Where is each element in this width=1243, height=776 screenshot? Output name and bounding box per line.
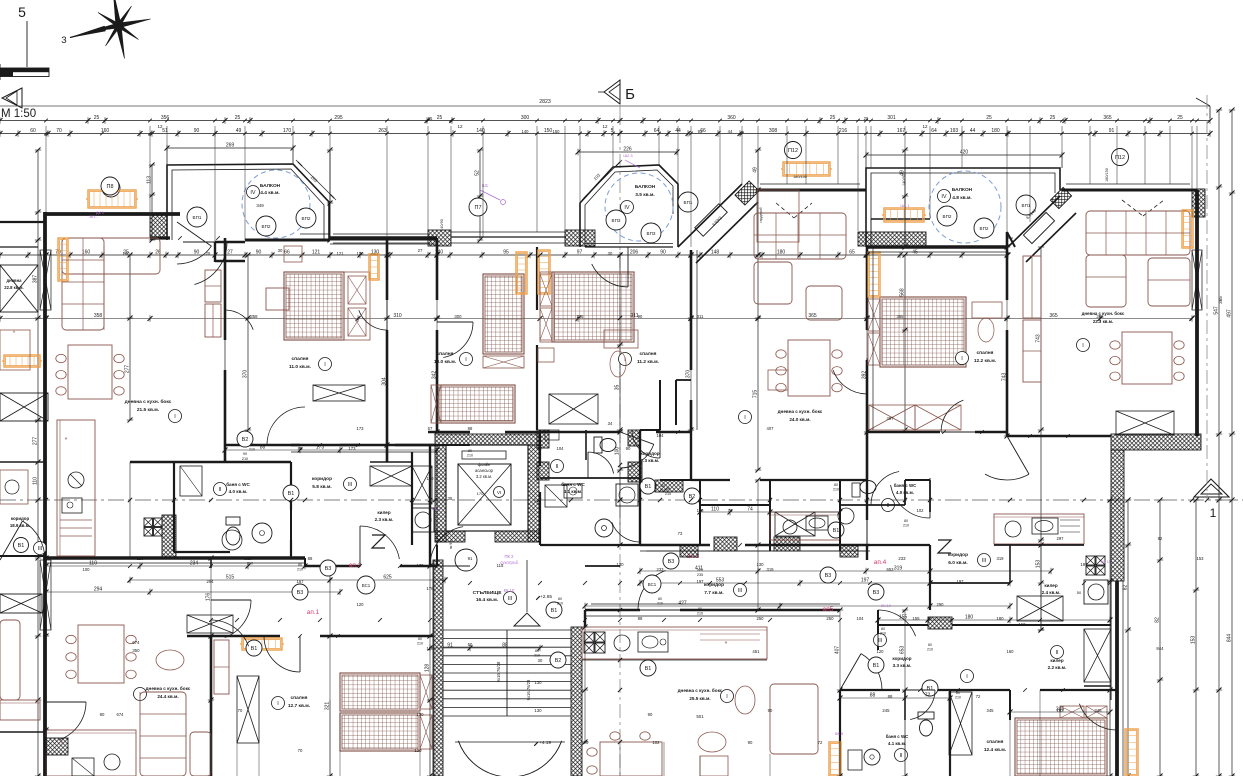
svg-text:В3: В3 (668, 559, 675, 565)
svg-text:коридор: коридор (948, 553, 968, 558)
wall under balcony1 (245, 239, 330, 242)
svg-text:350: 350 (132, 648, 140, 653)
svg-text:210: 210 (534, 654, 540, 658)
svg-text:III: III (348, 482, 353, 488)
svg-text:57: 57 (428, 426, 433, 431)
wall y=558 long (ap1 south) (46, 556, 305, 560)
svg-text:М 1:50: М 1:50 (1, 108, 36, 120)
svg-text:спалня: спалня (292, 357, 309, 362)
svg-text:25: 25 (830, 115, 836, 121)
right dimension chains (1218, 110, 1220, 776)
door arc D balcony (592, 264, 628, 287)
svg-text:З: З (61, 35, 66, 45)
svg-text:килер: килер (1044, 583, 1058, 588)
svg-text:300: 300 (521, 115, 530, 121)
wall x=1007 F/G divide (1006, 232, 1009, 300)
radiator P12 left (783, 162, 830, 176)
svg-text:120: 120 (697, 568, 703, 572)
svg-text:210: 210 (417, 642, 423, 646)
svg-text:90: 90 (748, 740, 753, 745)
svg-text:ВП1: ВП1 (1022, 203, 1031, 208)
window sills double lines top walls (45, 318, 47, 420)
wall x=385-390 bedroomB right (386, 238, 389, 300)
svg-text:+4.19: +4.19 (539, 740, 551, 746)
bed single C (483, 274, 524, 354)
svg-text:365: 365 (1103, 115, 1112, 121)
svg-text:49: 49 (236, 128, 242, 134)
svg-text:153: 153 (1036, 560, 1042, 569)
svg-text:В1: В1 (251, 646, 258, 652)
table 25.5 bottom (600, 742, 662, 776)
svg-text:6.0 кв.м.: 6.0 кв.м. (948, 560, 968, 566)
svg-text:319: 319 (997, 556, 1005, 561)
svg-text:ВП2: ВП2 (262, 224, 271, 229)
svg-text:210: 210 (665, 492, 671, 496)
svg-text:ДК 1: ДК 1 (96, 211, 104, 215)
svg-text:30: 30 (608, 251, 613, 256)
svg-text:4.0 кв.м.: 4.0 кв.м. (229, 489, 248, 494)
svg-text:30: 30 (278, 248, 283, 253)
hatch pier x565-595 (565, 230, 595, 246)
side table (266, 288, 289, 310)
projection lines top (45, 126, 47, 212)
kitchen column left (57, 420, 95, 556)
balcony 4.4 door wall (215, 241, 245, 243)
svg-text:365: 365 (1096, 314, 1104, 319)
svg-text:В3: В3 (825, 573, 832, 579)
svg-text:625: 625 (383, 575, 392, 581)
svg-text:спалня: спалня (977, 351, 994, 356)
svg-text:70: 70 (298, 748, 303, 753)
hatch pier x428-450 (428, 230, 451, 246)
svg-text:VI: VI (497, 490, 501, 495)
svg-text:844: 844 (1156, 646, 1164, 651)
svg-text:баня с WC: баня с WC (886, 734, 909, 739)
kitchen bottom-left (46, 730, 136, 776)
svg-text:90: 90 (194, 250, 200, 256)
svg-text:80: 80 (250, 443, 254, 447)
svg-text:30: 30 (538, 658, 543, 663)
svg-text:210: 210 (880, 632, 886, 636)
interior dim rows extra (225, 449, 437, 451)
sofa 25.5 (770, 684, 818, 754)
bath left of elevator (412, 466, 432, 504)
svg-text:250: 250 (826, 616, 834, 621)
svg-text:140/90: 140/90 (440, 219, 444, 231)
wall y=690 ap4 south (840, 689, 900, 691)
svg-text:90: 90 (768, 708, 773, 713)
svg-text:370: 370 (686, 370, 692, 379)
dining table left (68, 345, 112, 399)
svg-text:130: 130 (534, 680, 542, 685)
svg-text:319: 319 (767, 567, 775, 572)
svg-text:451: 451 (752, 649, 760, 654)
svg-text:12: 12 (157, 124, 163, 129)
svg-text:233: 233 (898, 556, 906, 561)
svg-text:дневна с кухн. бокс: дневна с кухн. бокс (125, 398, 172, 405)
svg-text:ВП2: ВП2 (980, 226, 989, 231)
svg-text:301: 301 (887, 115, 896, 121)
sofa bottom-left (140, 692, 186, 776)
svg-text:гардероб: гардероб (759, 207, 763, 222)
svg-text:IV: IV (941, 194, 947, 200)
bedroomD bottom wall (540, 431, 620, 433)
svg-text:7.7 кв.м.: 7.7 кв.м. (704, 590, 724, 596)
svg-text:233: 233 (657, 567, 665, 572)
svg-text:100: 100 (615, 447, 621, 456)
svg-text:88: 88 (260, 445, 266, 451)
svg-text:130: 130 (534, 708, 542, 713)
svg-text:ВК 5: ВК 5 (835, 731, 844, 736)
svg-text:Б: Б (625, 86, 635, 103)
sink bath2 (595, 519, 613, 537)
svg-text:90: 90 (626, 446, 631, 451)
svg-text:80: 80 (666, 487, 670, 491)
svg-text:II: II (555, 464, 559, 470)
svg-text:128: 128 (425, 664, 431, 673)
svg-text:34: 34 (608, 421, 613, 426)
svg-text:49: 49 (753, 167, 759, 173)
svg-text:ВП2: ВП2 (943, 214, 952, 219)
svg-text:150: 150 (553, 129, 561, 134)
svg-text:210: 210 (697, 612, 703, 616)
bed C2 bottom (437, 385, 515, 423)
stairwell walls (433, 560, 443, 776)
svg-text:515: 515 (226, 575, 235, 581)
left edge neighbor walls (0, 221, 45, 223)
svg-text:311: 311 (697, 314, 704, 319)
ticks along axis x=620 (618, 131, 622, 135)
left neighbor fragments (0, 265, 38, 312)
svg-text:22.8 кв.м.: 22.8 кв.м. (4, 285, 23, 290)
svg-text:163: 163 (1057, 708, 1065, 713)
sofa cushion lines (1086, 232, 1190, 234)
svg-text:IV: IV (250, 190, 256, 196)
svg-text:В1: В1 (645, 484, 652, 490)
top wall window section x450-565 (451, 236, 566, 238)
svg-text:65: 65 (849, 250, 855, 256)
sofa L top-left (62, 238, 104, 330)
svg-text:173: 173 (357, 426, 365, 431)
svg-text:130: 130 (417, 712, 425, 717)
svg-text:245: 245 (882, 708, 890, 713)
ap4 corridor walls (866, 480, 868, 520)
Z symbol right kiler (938, 540, 951, 553)
wall x=540 C/D divide (536, 247, 538, 310)
svg-text:715: 715 (753, 390, 759, 399)
svg-text:180/150: 180/150 (1105, 168, 1109, 182)
svg-text:ВП3: ВП3 (647, 231, 656, 236)
svg-text:64: 64 (931, 128, 937, 134)
svg-text:2.3 кв.м.: 2.3 кв.м. (641, 458, 660, 463)
radiator bottom right (1125, 729, 1138, 776)
svg-text:356: 356 (161, 115, 170, 121)
svg-text:88: 88 (870, 693, 876, 699)
svg-text:В1: В1 (551, 608, 558, 614)
svg-text:11.0 кв.м.: 11.0 кв.м. (289, 364, 311, 370)
svg-text:П8: П8 (106, 184, 113, 190)
svg-text:Ш2.3: Ш2.3 (623, 153, 633, 158)
svg-text:91: 91 (468, 556, 473, 561)
svg-text:290: 290 (937, 602, 945, 607)
svg-text:80: 80 (881, 627, 885, 631)
radiator G right (1182, 210, 1193, 248)
svg-text:148: 148 (711, 250, 720, 256)
svg-text:130: 130 (357, 251, 365, 256)
radiator bedroomB right (369, 254, 379, 280)
svg-text:91: 91 (1109, 128, 1115, 134)
svg-text:БАЛКОН: БАЛКОН (635, 184, 656, 190)
svg-text:104: 104 (857, 616, 865, 621)
svg-text:1: 1 (1210, 506, 1217, 520)
svg-text:743: 743 (1002, 373, 1008, 382)
bedroomB bottom wall y=445 (225, 444, 300, 446)
radiators bedroomC top (516, 252, 527, 294)
svg-text:210: 210 (247, 562, 253, 566)
svg-text:II: II (899, 753, 903, 759)
svg-text:2823: 2823 (539, 99, 551, 105)
svg-text:72: 72 (818, 740, 823, 745)
svg-text:спалня: спалня (437, 352, 454, 357)
svg-text:+2.85: +2.85 (540, 594, 552, 600)
svg-text:210: 210 (249, 448, 255, 452)
svg-text:4.1 кв.м.: 4.1 кв.м. (564, 489, 583, 494)
svg-text:82: 82 (1158, 536, 1163, 541)
table G (1122, 332, 1172, 384)
svg-text:90: 90 (243, 452, 247, 456)
svg-text:4.4 кв.м.: 4.4 кв.м. (260, 190, 280, 196)
svg-text:210: 210 (297, 568, 303, 572)
wall x=878 (877, 610, 879, 650)
door arc balcony1 (177, 246, 211, 264)
diagonal passage balcony3 (1008, 196, 1060, 247)
svg-text:II: II (218, 487, 222, 493)
svg-text:дневна с кухн. бокс: дневна с кухн. бокс (146, 685, 191, 691)
extra door arcs (194, 242, 227, 285)
svg-text:ВП1: ВП1 (684, 200, 693, 205)
svg-text:73: 73 (678, 531, 683, 536)
svg-text:120: 120 (877, 649, 885, 654)
balcony2 floor wall (585, 246, 673, 248)
svg-text:4.1 кв.м.: 4.1 кв.м. (888, 741, 906, 746)
svg-text:80: 80 (698, 607, 702, 611)
closet 12.7 (237, 676, 259, 743)
svg-text:80: 80 (468, 449, 472, 453)
svg-text:90: 90 (256, 250, 262, 256)
axis marker Б (top) (604, 80, 620, 104)
svg-text:*: * (61, 741, 64, 748)
svg-text:КК 10: КК 10 (504, 588, 515, 593)
svg-text:80: 80 (904, 519, 908, 523)
svg-text:25.5 кв.м.: 25.5 кв.м. (689, 696, 710, 701)
svg-text:300: 300 (454, 314, 462, 319)
svg-text:74: 74 (747, 507, 753, 513)
interior dim chain y=255 (0, 254, 1008, 256)
svg-text:21.5 кв.м.: 21.5 кв.м. (137, 407, 159, 413)
svg-text:52: 52 (475, 170, 481, 176)
svg-text:153: 153 (1197, 556, 1205, 561)
wall y=462 bath1 top (130, 461, 291, 463)
blue circle balcony3 (929, 171, 1001, 243)
svg-text:365: 365 (808, 313, 817, 319)
sofa G corner (1086, 211, 1190, 255)
interior dim chain y=583 (640, 570, 1051, 572)
svg-text:16.4 кв.м.: 16.4 кв.м. (476, 597, 498, 603)
svg-text:80: 80 (834, 483, 838, 487)
svg-text:210: 210 (657, 602, 663, 606)
north arrow to З (70, 26, 119, 38)
windows right wall G (1192, 250, 1202, 310)
svg-text:ап.1: ап.1 (307, 609, 320, 616)
tick clusters row y=566/620 (44, 564, 48, 568)
svg-text:234: 234 (190, 561, 199, 567)
wardrobe bedroomB (313, 385, 365, 401)
svg-text:88: 88 (308, 556, 313, 561)
misc vertical dims (151, 165, 153, 240)
centerline y=500 (0, 499, 1243, 501)
axis marker left edge (2, 88, 22, 108)
svg-text:коридор: коридор (892, 656, 911, 661)
svg-text:427: 427 (678, 601, 687, 607)
circled labels (187, 207, 207, 227)
extra walls pass2 (291, 444, 360, 446)
svg-text:25: 25 (94, 115, 100, 121)
svg-text:160: 160 (1007, 649, 1015, 654)
stove squares near bath1 (144, 518, 153, 527)
svg-text:В1: В1 (927, 686, 934, 692)
svg-text:308: 308 (769, 128, 778, 134)
svg-text:4.8 кв.м.: 4.8 кв.м. (952, 195, 972, 201)
svg-text:25: 25 (1050, 115, 1056, 121)
svg-text:349: 349 (256, 203, 264, 208)
svg-text:844: 844 (1227, 634, 1233, 643)
svg-text:210: 210 (242, 457, 248, 461)
balcony 3.5 outline (580, 165, 678, 247)
right outer wall (1195, 190, 1199, 436)
svg-text:50: 50 (468, 642, 473, 647)
svg-text:П7: П7 (474, 205, 481, 211)
svg-text:310: 310 (393, 313, 402, 319)
wall x=437 bedroomC left (436, 238, 439, 300)
svg-text:365: 365 (1218, 296, 1223, 304)
blue circle balcony1 (242, 170, 310, 238)
svg-text:110: 110 (711, 507, 719, 513)
svg-text:176: 176 (206, 593, 212, 602)
svg-text:80: 80 (418, 637, 422, 641)
svg-text:35: 35 (448, 496, 453, 501)
stair up arrow (514, 613, 540, 626)
bath2 block center (539, 430, 541, 466)
svg-text:ВП2: ВП2 (302, 216, 311, 221)
wardrobe strips x=205 (205, 270, 221, 302)
svg-text:11.2 кв.м.: 11.2 кв.м. (637, 359, 659, 365)
svg-text:197: 197 (957, 579, 965, 584)
wardrobe F (869, 405, 915, 430)
purple marks (222, 530, 242, 550)
svg-text:216: 216 (839, 128, 848, 134)
svg-text:27: 27 (227, 250, 233, 256)
svg-text:дневна с кухн. бокс: дневна с кухн. бокс (678, 687, 723, 693)
svg-text:140/90: 140/90 (902, 174, 906, 186)
svg-text:25: 25 (428, 116, 433, 121)
right vertical axis x=1207 (1206, 95, 1208, 500)
B3 circles ap1/ap2 hall (320, 560, 336, 576)
svg-text:сухотръб: сухотръб (500, 560, 518, 565)
svg-text:210: 210 (557, 602, 563, 606)
svg-text:160: 160 (123, 251, 131, 256)
svg-text:Ш1.1: Ш1.1 (900, 203, 910, 208)
wall y=480 mid right (691, 479, 730, 481)
ap3 bath walls (699, 480, 701, 545)
svg-text:90: 90 (194, 128, 200, 134)
axis marker 1 (right) (1194, 479, 1229, 497)
svg-text:5.8 кв.м.: 5.8 кв.м. (312, 484, 332, 490)
closet strip G left (1023, 256, 1041, 318)
svg-text:277: 277 (33, 437, 39, 446)
bedroom 12.4 left wall (1009, 690, 1011, 720)
svg-text:44: 44 (970, 128, 976, 134)
stair bottom arc (458, 741, 561, 776)
svg-text:170: 170 (477, 491, 484, 496)
radiator balcony3 (884, 208, 924, 222)
svg-text:22.3 кв.м.: 22.3 кв.м. (1093, 319, 1113, 324)
svg-text:91: 91 (447, 643, 453, 649)
svg-text:25: 25 (235, 115, 241, 121)
svg-text:120: 120 (414, 748, 422, 753)
svg-text:спалня: спалня (291, 696, 308, 701)
closet x-box 12.4 (949, 692, 972, 755)
svg-text:210: 210 (955, 696, 961, 700)
svg-text:342: 342 (432, 371, 438, 380)
svg-text:килер: килер (377, 510, 391, 515)
svg-text:2.3 кв.м.: 2.3 кв.м. (375, 517, 394, 522)
svg-text:82: 82 (1155, 617, 1161, 623)
svg-text:365: 365 (1049, 313, 1058, 319)
svg-text:345: 345 (987, 708, 995, 713)
svg-text:коридор: коридор (11, 516, 30, 521)
bedroomF bottom wall y=432 (867, 431, 940, 433)
svg-text:9x16.76/28: 9x16.76/28 (496, 661, 501, 682)
ticks along centerline y=500 (44, 498, 48, 502)
svg-text:П12: П12 (788, 148, 798, 154)
desk F right (972, 302, 1002, 318)
svg-text:210: 210 (467, 454, 473, 458)
wall y=190 x1062-1197 (1062, 189, 1197, 192)
living G bottom wall y=436 (1007, 435, 1111, 437)
П8 radiator top-left (88, 190, 136, 208)
bed F (880, 297, 966, 367)
wall y=186 x756-866 (756, 189, 866, 192)
svg-text:197: 197 (697, 579, 705, 584)
svg-text:В2: В2 (242, 437, 249, 443)
svg-text:121: 121 (337, 251, 345, 256)
svg-text:150: 150 (544, 128, 553, 134)
leader ticks at door openings (178, 236, 182, 240)
svg-text:50: 50 (1077, 590, 1082, 595)
svg-text:547: 547 (1214, 306, 1220, 315)
bath4 fixtures (860, 481, 876, 494)
radiators left apt (58, 238, 68, 281)
side table D (538, 348, 554, 362)
armchairs bottom center (698, 732, 726, 752)
svg-text:24.0 кв.м.: 24.0 кв.м. (789, 417, 810, 422)
svg-text:110: 110 (137, 556, 144, 561)
svg-text:497: 497 (887, 416, 895, 421)
svg-text:35: 35 (615, 385, 621, 391)
svg-text:дневна: дневна (7, 278, 23, 283)
svg-text:60: 60 (30, 128, 36, 134)
svg-text:210: 210 (660, 489, 666, 493)
